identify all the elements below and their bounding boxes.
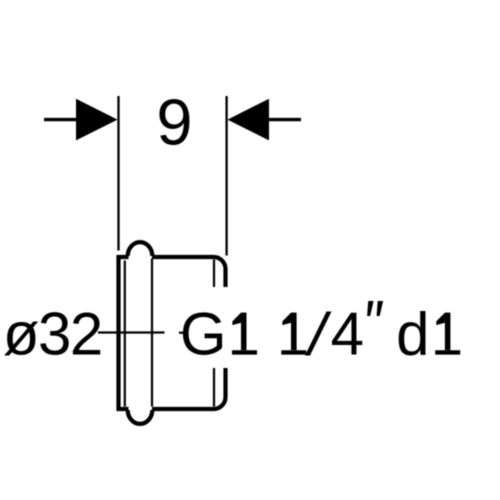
chamfer edge thin line lower segment (213, 368, 215, 407)
chamfer edge thin line upper segment (213, 260, 215, 288)
leader line for diameter label (98, 331, 165, 333)
inch double prime mark (367, 301, 383, 316)
extension line right (225, 96, 227, 256)
dimension tail line left (44, 118, 78, 121)
svg-text:4: 4 (331, 301, 364, 368)
svg-text:d: d (396, 301, 429, 368)
dimension tail line right (267, 118, 301, 121)
inner thin line right of bump (151, 259, 153, 407)
part left edge (thick) (116, 255, 120, 411)
part top outline with seal bump and rounded corner (thick) (117, 242, 226, 287)
fraction slash (305, 312, 332, 356)
dimension arrowhead left (76, 99, 118, 141)
dimension arrowhead right (228, 99, 270, 141)
leader line end tick (179, 332, 184, 334)
digit 1 of 1/4 (footed style) (281, 313, 306, 355)
svg-text:9: 9 (156, 86, 192, 159)
inner thin line left shell (124, 261, 126, 407)
digit 1 of d1 (footed style) (435, 313, 460, 355)
svg-text:G: G (180, 301, 227, 368)
digit 1 of G1 (footed style) (232, 313, 257, 355)
svg-text:ø32: ø32 (3, 301, 102, 368)
extension line left (117, 96, 119, 251)
part bottom outline with seal bump and rounded corner (thick) (117, 368, 226, 424)
